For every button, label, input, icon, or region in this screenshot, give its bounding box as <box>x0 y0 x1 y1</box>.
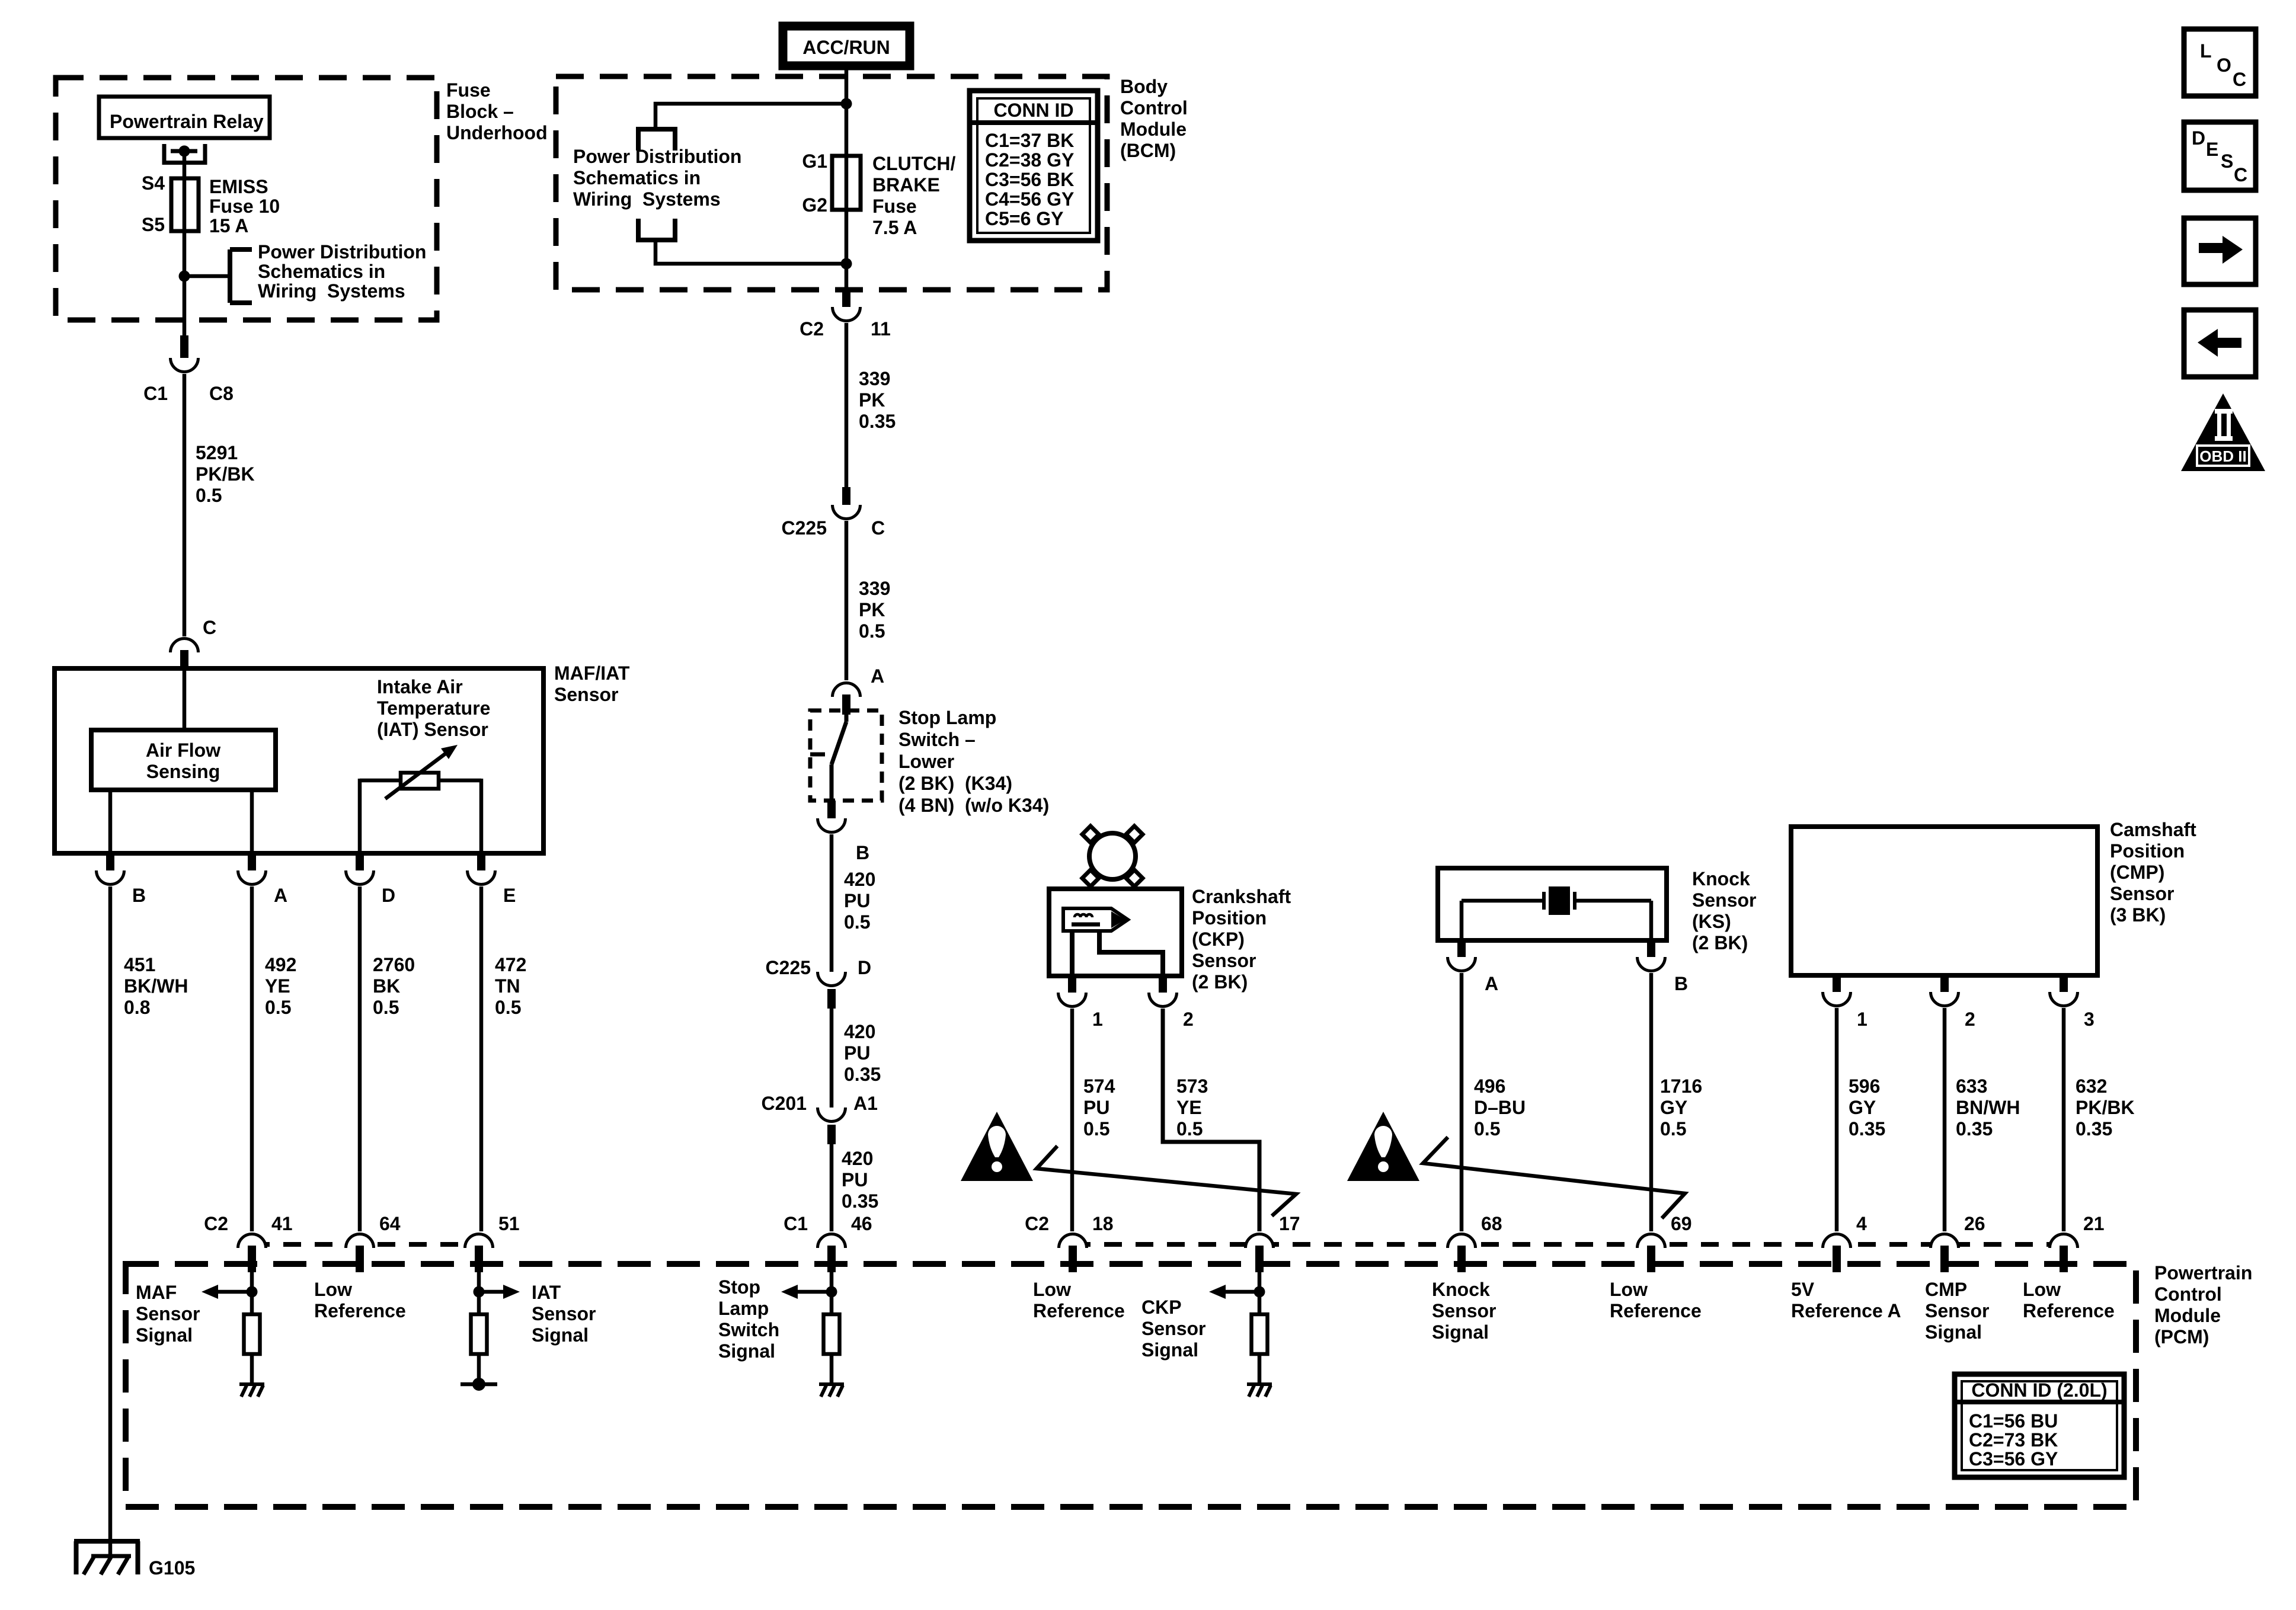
svg-text:Low: Low <box>1033 1279 1071 1300</box>
svg-text:B: B <box>132 885 146 906</box>
svg-text:0.5: 0.5 <box>1660 1118 1686 1140</box>
svg-text:Sensor: Sensor <box>1692 889 1756 911</box>
connector row dotted line (left group) <box>252 1242 479 1247</box>
wire AFS right leg to pin A <box>250 790 254 853</box>
connector PCM pin 69 <box>1638 1213 1692 1272</box>
svg-text:7.5 A: 7.5 A <box>872 217 917 238</box>
CKP reluctor wheel icon <box>1082 826 1143 886</box>
svg-text:Control: Control <box>2154 1283 2222 1305</box>
svg-text:0.5: 0.5 <box>495 997 521 1018</box>
resistor R (pin 17) <box>1252 1314 1268 1354</box>
svg-text:0.5: 0.5 <box>844 911 870 933</box>
svg-text:(3 BK): (3 BK) <box>2110 904 2166 926</box>
svg-text:Sensor: Sensor <box>532 1303 596 1324</box>
svg-text:C1: C1 <box>784 1213 808 1234</box>
svg-text:Block –: Block – <box>446 101 514 122</box>
svg-text:0.35: 0.35 <box>2076 1118 2112 1140</box>
relay K: Powertrain Relay label box <box>99 97 270 138</box>
svg-text:4: 4 <box>1856 1213 1867 1234</box>
svg-text:G2: G2 <box>802 194 827 216</box>
svg-text:0.5: 0.5 <box>265 997 291 1018</box>
svg-text:O: O <box>2217 55 2231 76</box>
svg-text:420: 420 <box>842 1148 873 1169</box>
wire 596 GY 0.35 <box>1837 1008 1885 1231</box>
fuse block underhood dashed box <box>56 78 437 320</box>
connector pin A into stop lamp switch <box>833 665 885 715</box>
svg-text:339: 339 <box>859 368 890 389</box>
wire resistor to ground (pin 41) <box>250 1354 254 1384</box>
wire ACC/RUN feed down <box>845 66 849 289</box>
svg-text:Wiring Systems: Wiring Systems <box>573 188 721 210</box>
svg-text:1716: 1716 <box>1660 1076 1702 1097</box>
MAF/IAT sensor box <box>55 668 543 853</box>
svg-text:0.5: 0.5 <box>859 620 885 642</box>
svg-text:420: 420 <box>844 869 875 890</box>
wire 472 TN 0.5 <box>481 886 526 1231</box>
svg-text:Camshaft: Camshaft <box>2110 819 2196 840</box>
svg-text:D: D <box>858 957 871 978</box>
svg-text:68: 68 <box>1481 1213 1502 1234</box>
svg-text:Crankshaft: Crankshaft <box>1192 886 1291 907</box>
svg-text:C225: C225 <box>782 517 827 539</box>
svg-text:1: 1 <box>1857 1009 1868 1030</box>
svg-text:BRAKE: BRAKE <box>872 174 940 196</box>
svg-text:Wiring Systems: Wiring Systems <box>258 280 405 302</box>
label Power Distribution Schematics (left) <box>258 241 426 302</box>
svg-text:573: 573 <box>1176 1076 1208 1097</box>
svg-text:Fuse: Fuse <box>872 196 917 217</box>
wire 496 D-BU 0.5 <box>1462 973 1526 1231</box>
connector PCM pin 4 <box>1823 1213 1868 1272</box>
wire 2760 BK 0.5 <box>360 886 415 1231</box>
svg-text:Control: Control <box>1120 97 1188 119</box>
svg-text:Powertrain Relay: Powertrain Relay <box>110 111 264 132</box>
label IAT Sensor Signal <box>532 1282 596 1346</box>
connector C into MAF/IAT sensor <box>171 617 217 670</box>
svg-text:Reference: Reference <box>314 1300 406 1321</box>
fuse F: EMISS Fuse 10 15A <box>171 176 280 276</box>
wire 420 PU 0.5 <box>832 834 875 977</box>
svg-text:TN: TN <box>495 975 520 997</box>
PCM dashed box <box>126 1264 2136 1507</box>
label C225 <box>782 517 827 539</box>
svg-text:Air Flow: Air Flow <box>146 740 220 761</box>
connector pin 2 of CMP <box>1931 975 1975 1030</box>
svg-text:0.35: 0.35 <box>842 1190 878 1212</box>
svg-text:C225: C225 <box>766 957 811 978</box>
svg-text:C2: C2 <box>800 318 824 340</box>
svg-text:MAF/IAT: MAF/IAT <box>554 662 630 684</box>
svg-text:0.5: 0.5 <box>196 485 222 506</box>
svg-text:C3=56 BK: C3=56 BK <box>985 169 1074 190</box>
wire loop to power distribution (upper) <box>655 104 846 131</box>
signal ground (pin 51) <box>461 1378 497 1391</box>
svg-text:Position: Position <box>2110 840 2185 862</box>
CKP sensor pickup element icon <box>1063 908 1128 931</box>
knock sensor piezo element icon <box>1462 886 1651 915</box>
connector pin B out of stop lamp switch <box>818 801 870 863</box>
svg-text:Temperature: Temperature <box>377 697 490 719</box>
svg-text:Fuse: Fuse <box>446 79 491 101</box>
label Power Distribution Schematics (BCM) <box>573 146 741 210</box>
svg-text:451: 451 <box>124 954 155 975</box>
LOC icon box <box>2184 29 2256 96</box>
svg-text:Sensor: Sensor <box>1925 1300 1989 1321</box>
svg-text:Sensing: Sensing <box>146 761 220 782</box>
ACC/RUN power feed box <box>783 26 910 66</box>
connector PCM pin 51 <box>465 1213 520 1272</box>
label 11 <box>871 318 891 340</box>
svg-text:E: E <box>2206 139 2218 160</box>
label D <box>858 957 871 978</box>
wire 492 YE 0.5 <box>252 886 296 1231</box>
svg-text:A: A <box>1485 973 1498 994</box>
svg-text:CONN ID (2.0L): CONN ID (2.0L) <box>1971 1379 2107 1401</box>
connector row dotted line (right group) <box>1073 1242 2064 1247</box>
svg-text:G105: G105 <box>149 1557 195 1579</box>
connector C2 pin 11 of BCM <box>833 288 861 321</box>
CKP sensor box <box>1049 889 1182 976</box>
svg-text:(BCM): (BCM) <box>1120 140 1176 161</box>
CONN ID (2.0L) table <box>1955 1374 2124 1477</box>
connector PCM pin 17 <box>1246 1213 1300 1272</box>
wire 1716 GY 0.5 <box>1651 973 1702 1231</box>
svg-text:C: C <box>2233 69 2246 90</box>
svg-text:S4: S4 <box>142 172 165 194</box>
svg-text:CKP: CKP <box>1141 1297 1182 1318</box>
svg-text:Sensor: Sensor <box>1192 950 1256 971</box>
label A1 <box>853 1093 878 1114</box>
svg-text:Low: Low <box>1610 1279 1648 1300</box>
svg-text:D: D <box>382 885 395 906</box>
wire 574 PU 0.5 <box>1072 1009 1115 1231</box>
label Stop Lamp Switch Lower <box>898 707 1049 816</box>
svg-text:496: 496 <box>1474 1076 1505 1097</box>
label Low Reference (pin 69) <box>1610 1279 1702 1321</box>
svg-text:Lamp: Lamp <box>718 1298 769 1319</box>
svg-text:S5: S5 <box>142 214 165 235</box>
svg-text:0.35: 0.35 <box>859 411 896 432</box>
label Fuse Block Underhood <box>446 79 548 143</box>
svg-text:PK: PK <box>859 599 885 620</box>
svg-text:632: 632 <box>2076 1076 2107 1097</box>
label Low Reference (pin 21) <box>2023 1279 2115 1321</box>
svg-text:IAT: IAT <box>532 1282 561 1303</box>
svg-text:ACC/RUN: ACC/RUN <box>802 37 890 58</box>
svg-text:0.35: 0.35 <box>1956 1118 1993 1140</box>
svg-text:D–BU: D–BU <box>1474 1097 1526 1118</box>
label Intake Air Temperature (IAT) Sensor <box>377 676 490 740</box>
svg-text:574: 574 <box>1083 1076 1115 1097</box>
power distribution bracket symbol <box>230 249 252 303</box>
svg-text:E: E <box>503 885 516 906</box>
svg-text:C: C <box>203 617 216 638</box>
svg-text:64: 64 <box>379 1213 401 1234</box>
svg-text:PU: PU <box>842 1169 868 1190</box>
svg-text:Low: Low <box>2023 1279 2061 1300</box>
svg-text:(CKP): (CKP) <box>1192 929 1245 950</box>
svg-text:CLUTCH/: CLUTCH/ <box>872 153 956 174</box>
MAF sensor signal branch (pin 41) <box>202 1272 258 1314</box>
ground (pin 17) <box>1247 1384 1272 1397</box>
svg-text:PU: PU <box>1083 1097 1109 1118</box>
svg-text:S: S <box>2221 151 2233 172</box>
svg-text:Module: Module <box>2154 1305 2221 1326</box>
svg-text:633: 633 <box>1956 1076 1987 1097</box>
connector pin 2 of CKP <box>1149 976 1194 1030</box>
IAT sensor signal branch (pin 51) <box>474 1272 520 1314</box>
wire 632 PK/BK 0.35 <box>2064 1008 2135 1231</box>
svg-text:B: B <box>856 842 869 863</box>
svg-text:5V: 5V <box>1791 1279 1815 1300</box>
svg-text:0.5: 0.5 <box>1474 1118 1500 1140</box>
svg-text:BK: BK <box>373 975 400 997</box>
wire fuse to connector C1/C8 <box>183 276 187 337</box>
connector pin A of knock sensor <box>1448 940 1499 994</box>
label MAF Sensor Signal <box>136 1282 200 1346</box>
svg-text:0.35: 0.35 <box>1849 1118 1885 1140</box>
CKP internal leg 1 <box>1070 931 1075 976</box>
svg-text:YE: YE <box>1176 1097 1202 1118</box>
svg-text:(2 BK): (2 BK) <box>1192 971 1248 993</box>
svg-text:(4 BN) (w/o K34): (4 BN) (w/o K34) <box>898 795 1049 816</box>
svg-text:YE: YE <box>265 975 290 997</box>
node S4 <box>142 172 165 194</box>
svg-text:Reference: Reference <box>1610 1300 1702 1321</box>
svg-text:A: A <box>871 665 884 687</box>
OBD II icon triangle <box>2181 393 2265 471</box>
svg-text:Sensor: Sensor <box>2110 883 2174 904</box>
svg-text:26: 26 <box>1964 1213 1985 1234</box>
svg-text:51: 51 <box>498 1213 520 1234</box>
connector pin E of MAF/IAT <box>468 853 516 906</box>
svg-text:MAF: MAF <box>136 1282 177 1303</box>
svg-text:Knock: Knock <box>1432 1279 1490 1300</box>
CKP internal leg 2 <box>1099 931 1163 976</box>
resistor R (pin 51) <box>471 1314 487 1354</box>
svg-text:C8: C8 <box>209 383 234 404</box>
svg-text:C1=37 BK: C1=37 BK <box>985 130 1074 151</box>
svg-text:PU: PU <box>844 1042 870 1064</box>
connector pin D of MAF/IAT <box>346 853 396 906</box>
junction node G2 return <box>841 258 852 270</box>
svg-text:C4=56 GY: C4=56 GY <box>985 188 1074 210</box>
svg-text:0.8: 0.8 <box>124 997 150 1018</box>
label MAF/IAT Sensor <box>554 662 630 705</box>
CKP sensor signal branch (pin 17) <box>1209 1272 1265 1314</box>
svg-text:D: D <box>2192 127 2205 149</box>
svg-text:492: 492 <box>265 954 296 975</box>
label C8 <box>209 383 234 404</box>
svg-text:BN/WH: BN/WH <box>1956 1097 2020 1118</box>
wire 5291 PK/BK 0.5 <box>184 374 255 636</box>
connector PCM pin 46 <box>784 1213 872 1272</box>
svg-text:C201: C201 <box>762 1093 807 1114</box>
svg-text:C5=6 GY: C5=6 GY <box>985 208 1064 229</box>
svg-text:Reference: Reference <box>1033 1300 1125 1321</box>
svg-text:596: 596 <box>1849 1076 1880 1097</box>
label Stop Lamp Switch Signal <box>718 1276 779 1362</box>
svg-text:2: 2 <box>1183 1009 1194 1030</box>
svg-text:Knock: Knock <box>1692 868 1750 889</box>
connector PCM pin 64 <box>346 1213 401 1272</box>
wire 420 PU 0.35 (lower) <box>832 1144 878 1231</box>
knock sensor box <box>1438 868 1667 940</box>
svg-text:Signal: Signal <box>1925 1321 1982 1343</box>
break bracket upper <box>638 129 675 151</box>
svg-text:Signal: Signal <box>718 1340 775 1362</box>
svg-text:Lower: Lower <box>898 751 954 772</box>
CMP sensor box <box>1791 827 2097 975</box>
label G2 <box>802 194 827 216</box>
svg-text:(2 BK) (K34): (2 BK) (K34) <box>898 773 1012 794</box>
connector pin 1 of CKP <box>1059 976 1103 1030</box>
svg-text:69: 69 <box>1671 1213 1692 1234</box>
svg-text:Stop Lamp: Stop Lamp <box>898 707 996 728</box>
svg-text:CMP: CMP <box>1925 1279 1967 1300</box>
svg-text:0.5: 0.5 <box>373 997 399 1018</box>
connector PCM pin 18 <box>1025 1213 1114 1272</box>
stop lamp switch dashed box <box>810 710 882 801</box>
label Knock Sensor Signal (pin 68) <box>1432 1279 1496 1343</box>
svg-text:(KS): (KS) <box>1692 911 1731 932</box>
svg-text:PK/BK: PK/BK <box>2076 1097 2135 1118</box>
svg-text:Fuse 10: Fuse 10 <box>209 196 280 217</box>
connector PCM pin 68 <box>1448 1213 1502 1272</box>
svg-text:GY: GY <box>1660 1097 1687 1118</box>
resistor R (pin 46) <box>824 1314 840 1354</box>
label CKP Sensor Signal <box>1141 1297 1205 1361</box>
wire 633 BN/WH 0.35 <box>1945 1008 2020 1231</box>
fuse: CLUTCH/BRAKE Fuse 7.5A <box>832 156 861 210</box>
svg-text:Underhood: Underhood <box>446 122 548 143</box>
connector PCM pin 26 <box>1931 1213 1985 1272</box>
svg-text:Signal: Signal <box>1141 1339 1198 1361</box>
svg-text:C3=56 GY: C3=56 GY <box>1969 1448 2058 1470</box>
svg-text:Switch: Switch <box>718 1319 779 1340</box>
label C225 (D) <box>766 957 811 978</box>
svg-text:Powertrain: Powertrain <box>2154 1262 2252 1283</box>
svg-text:11: 11 <box>871 318 891 340</box>
wire resistor to ground (pin 17) <box>1258 1354 1262 1384</box>
svg-text:C: C <box>2234 164 2247 185</box>
svg-text:Position: Position <box>1192 907 1267 929</box>
stop lamp switch signal branch (pin 46) <box>781 1272 837 1314</box>
connector C1/C8 <box>171 335 199 372</box>
svg-text:Schematics in: Schematics in <box>573 167 701 188</box>
wire 420 PU 0.35 (upper) <box>832 1009 881 1112</box>
svg-text:Signal: Signal <box>136 1324 193 1346</box>
svg-text:Reference: Reference <box>2023 1300 2115 1321</box>
svg-text:CONN ID: CONN ID <box>993 100 1073 121</box>
BCM dashed box <box>556 76 1107 290</box>
wire 451 BK/WH 0.8 <box>110 886 188 1555</box>
connector PCM pin 41 <box>204 1213 293 1272</box>
svg-text:5291: 5291 <box>196 442 238 463</box>
label G1 <box>802 151 827 172</box>
wire loop from power distribution (lower) <box>655 240 846 264</box>
svg-text:PU: PU <box>844 890 870 911</box>
svg-text:339: 339 <box>859 578 890 599</box>
connector C225 pin D <box>818 972 846 1009</box>
svg-text:21: 21 <box>2083 1213 2105 1234</box>
break bracket lower <box>638 219 675 240</box>
svg-text:Sensor: Sensor <box>1432 1300 1496 1321</box>
svg-text:Sensor: Sensor <box>554 684 618 705</box>
svg-text:(CMP): (CMP) <box>2110 862 2164 883</box>
svg-text:C1: C1 <box>143 383 168 404</box>
svg-text:(PCM): (PCM) <box>2154 1326 2209 1347</box>
connector PCM pin 21 <box>2050 1213 2105 1272</box>
svg-text:15 A: 15 A <box>209 215 248 236</box>
svg-text:EMISS: EMISS <box>209 176 268 197</box>
connector C225 pin C <box>833 487 861 518</box>
svg-text:Sensor: Sensor <box>136 1303 200 1324</box>
label Knock Sensor (KS) (2 BK) <box>1692 868 1756 953</box>
label CLUTCH/BRAKE Fuse 7.5 A <box>872 153 956 238</box>
ground (pin 46) <box>819 1384 844 1397</box>
ground G105 <box>74 1541 195 1579</box>
svg-text:Switch –: Switch – <box>898 729 976 750</box>
connector pin B of knock sensor <box>1638 940 1689 994</box>
svg-text:Signal: Signal <box>1432 1321 1489 1343</box>
svg-text:A1: A1 <box>853 1093 878 1114</box>
label Powertrain Control Module (PCM) <box>2154 1262 2252 1347</box>
label 5V Reference A (pin 4) <box>1791 1279 1901 1321</box>
svg-text:Body: Body <box>1120 76 1168 97</box>
svg-text:BK/WH: BK/WH <box>124 975 188 997</box>
switch lever SW <box>810 715 846 801</box>
svg-text:17: 17 <box>1279 1213 1300 1234</box>
svg-text:Sensor: Sensor <box>1141 1318 1205 1339</box>
svg-text:Stop: Stop <box>718 1276 760 1298</box>
wire relay to fuse <box>183 151 187 181</box>
svg-text:46: 46 <box>851 1213 872 1234</box>
svg-text:C2=73 BK: C2=73 BK <box>1969 1429 2058 1451</box>
warning triangle (knock circuits) <box>1347 1112 1419 1181</box>
wire into air flow sensing <box>183 670 187 730</box>
wire 573 YE 0.5 jog to pin 17 <box>1163 1009 1259 1231</box>
svg-text:Schematics in: Schematics in <box>258 261 385 282</box>
svg-text:Low: Low <box>314 1279 352 1300</box>
label Low Reference (pin 18) <box>1033 1279 1125 1321</box>
svg-text:(2 BK): (2 BK) <box>1692 932 1748 953</box>
warning triangle (CKP circuits) <box>961 1112 1033 1181</box>
wire 339 PK 0.5 <box>846 521 890 680</box>
label C1 <box>143 383 168 404</box>
svg-text:Signal: Signal <box>532 1324 589 1346</box>
svg-text:GY: GY <box>1849 1097 1876 1118</box>
svg-text:Power Distribution: Power Distribution <box>573 146 741 167</box>
svg-text:B: B <box>1674 973 1688 994</box>
svg-text:PK: PK <box>859 389 885 411</box>
junction node to power distribution <box>179 271 231 282</box>
svg-text:C1=56 BU: C1=56 BU <box>1969 1410 2058 1432</box>
junction node G1 feed <box>841 98 852 110</box>
svg-text:(IAT) Sensor: (IAT) Sensor <box>377 719 488 740</box>
svg-text:C: C <box>871 517 885 539</box>
svg-text:18: 18 <box>1092 1213 1114 1234</box>
IAT thermistor R <box>385 745 458 799</box>
svg-text:Module: Module <box>1120 119 1187 140</box>
leader line from warning triangle (knock circuits) <box>1423 1137 1685 1218</box>
connector pin B of MAF/IAT <box>97 853 146 906</box>
svg-text:C2: C2 <box>204 1213 228 1234</box>
knock sensor internal legs <box>1462 901 1651 940</box>
wire 339 PK 0.35 <box>846 323 896 488</box>
wire AFS left leg to pin B <box>108 790 113 853</box>
leader line from warning triangle (CKP circuits) <box>1037 1146 1296 1216</box>
